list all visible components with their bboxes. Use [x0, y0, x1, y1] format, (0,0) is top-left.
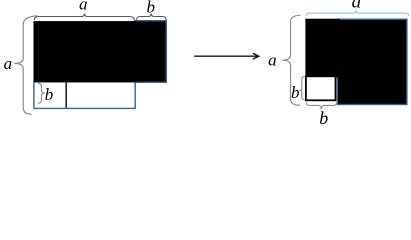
left figure: main black rectangle a wide [34, 22, 137, 82]
left figure: black divider of b x b square [65, 82, 67, 108]
right figure: black right block (blue border, black fill) [337, 19, 407, 104]
left figure: top over-brace for a [34, 14, 134, 21]
svg-text:b: b [45, 85, 54, 104]
svg-text:a: a [4, 54, 13, 73]
left figure: small brace for b in bottom strip [38, 83, 45, 103]
right figure: white b x b square (black border) [306, 76, 336, 100]
svg-text:b: b [319, 108, 328, 125]
svg-text:a: a [79, 0, 88, 14]
svg-text:a: a [352, 0, 362, 12]
right figure: black square left column (above white square) [306, 19, 339, 77]
svg-text:b: b [146, 0, 155, 17]
left figure: top over-brace for b [137, 14, 166, 20]
svg-text:a: a [268, 50, 277, 69]
right figure: bottom under-brace for b [306, 103, 336, 110]
left figure: strip top black edge [34, 81, 136, 83]
right figure: big left curly brace for a [282, 15, 300, 105]
right figure: light blue top over-brace for a [306, 10, 409, 16]
arrow [194, 53, 259, 59]
svg-text:b: b [291, 83, 300, 102]
left figure: big left curly brace for a [14, 16, 37, 114]
left figure: b-column rectangle (blue border, black fill) [135, 21, 167, 83]
left figure: bottom white strip rectangle (blue border) [34, 82, 135, 109]
right figure: small left brace for b [300, 77, 305, 100]
